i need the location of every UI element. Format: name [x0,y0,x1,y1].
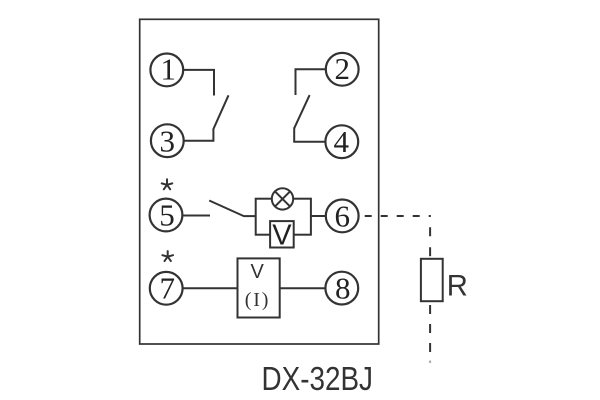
svg-text:3: 3 [160,124,176,159]
svg-text:5: 5 [159,198,175,233]
svg-text:R: R [447,270,468,302]
svg-text:1: 1 [161,51,177,86]
svg-text:4: 4 [334,124,350,159]
svg-text:7: 7 [159,270,175,305]
svg-text:8: 8 [335,270,351,305]
svg-text:6: 6 [334,198,350,233]
svg-text:V: V [251,261,265,283]
svg-text:V: V [272,220,292,252]
svg-text:DX-32BJ: DX-32BJ [262,360,374,397]
svg-text:2: 2 [334,51,350,86]
svg-text:(I): (I) [245,289,270,311]
